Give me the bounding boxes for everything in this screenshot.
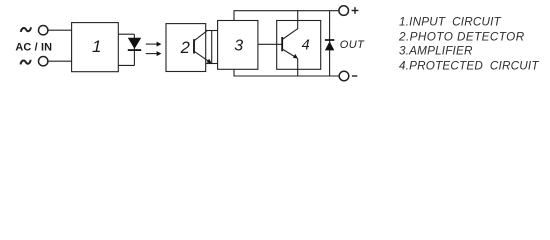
input terminal bottom	[39, 57, 48, 66]
wire: - rail bottom	[234, 75, 339, 77]
LED D1 cathode bar	[128, 49, 141, 51]
transistor Q2 collector wire to + rail	[297, 11, 299, 30]
svg-text:3.AMPLIFIER: 3.AMPLIFIER	[399, 45, 473, 58]
svg-text:3: 3	[234, 38, 243, 55]
output terminal +	[339, 6, 349, 16]
plus sign	[352, 7, 359, 14]
phototransistor Q1 emitter	[194, 51, 212, 63]
wire: block2 to block3 bottom	[206, 63, 218, 65]
svg-text:4.PROTECTED CIRCUIT: 4.PROTECTED CIRCUIT	[399, 60, 539, 73]
wire: block1 to LED anode	[118, 33, 134, 35]
protection diode cathode bar	[325, 39, 334, 41]
block 2 photo detector	[166, 24, 206, 72]
phototransistor Q1 collector-emitter vertical	[211, 31, 213, 64]
wire: block1 to LED cathode	[118, 64, 134, 66]
transistor Q2 emitter	[282, 49, 298, 59]
svg-text:AC / IN: AC / IN	[15, 42, 52, 54]
wire: bottom terminal to block 1	[48, 60, 72, 62]
transistor Q2 base bar	[281, 37, 283, 51]
output terminal -	[339, 71, 349, 81]
input terminal top	[39, 26, 48, 35]
svg-text:2: 2	[180, 39, 190, 57]
wire: + rail top	[234, 10, 339, 12]
minus sign	[352, 75, 357, 77]
svg-text:OUT: OUT	[340, 39, 365, 51]
transistor Q2 collector	[282, 29, 298, 40]
svg-text:1: 1	[92, 37, 101, 56]
wire: block3 top to + rail	[233, 11, 235, 21]
wire: block3 bottom to - rail	[233, 69, 235, 76]
svg-text:2.PHOTO DETECTOR: 2.PHOTO DETECTOR	[398, 31, 525, 44]
phototransistor Q1 collector	[194, 31, 207, 41]
block 1 input circuit	[72, 23, 119, 72]
wire: LED vertical	[133, 34, 135, 65]
wire: block2 to block3 top	[206, 30, 218, 32]
phototransistor Q1 base bar	[193, 39, 195, 53]
transistor Q2 emitter wire to - rail	[297, 58, 299, 76]
LED D1 triangle	[128, 38, 141, 49]
light arrow bottom	[146, 51, 162, 56]
block 4 protected circuit box	[277, 21, 321, 70]
wire: block3 to transistor base	[258, 43, 282, 45]
protection diode triangle	[325, 41, 334, 50]
light arrow top	[146, 42, 162, 47]
AC source symbol bottom ~	[21, 60, 31, 65]
svg-text:1.INPUT CIRCUIT: 1.INPUT CIRCUIT	[399, 16, 502, 29]
protection diode vertical wire	[329, 11, 331, 76]
AC source symbol top ~	[21, 27, 31, 32]
block 3 amplifier	[218, 21, 258, 70]
svg-text:4: 4	[302, 38, 310, 54]
wire: top terminal to block 1	[48, 29, 72, 31]
